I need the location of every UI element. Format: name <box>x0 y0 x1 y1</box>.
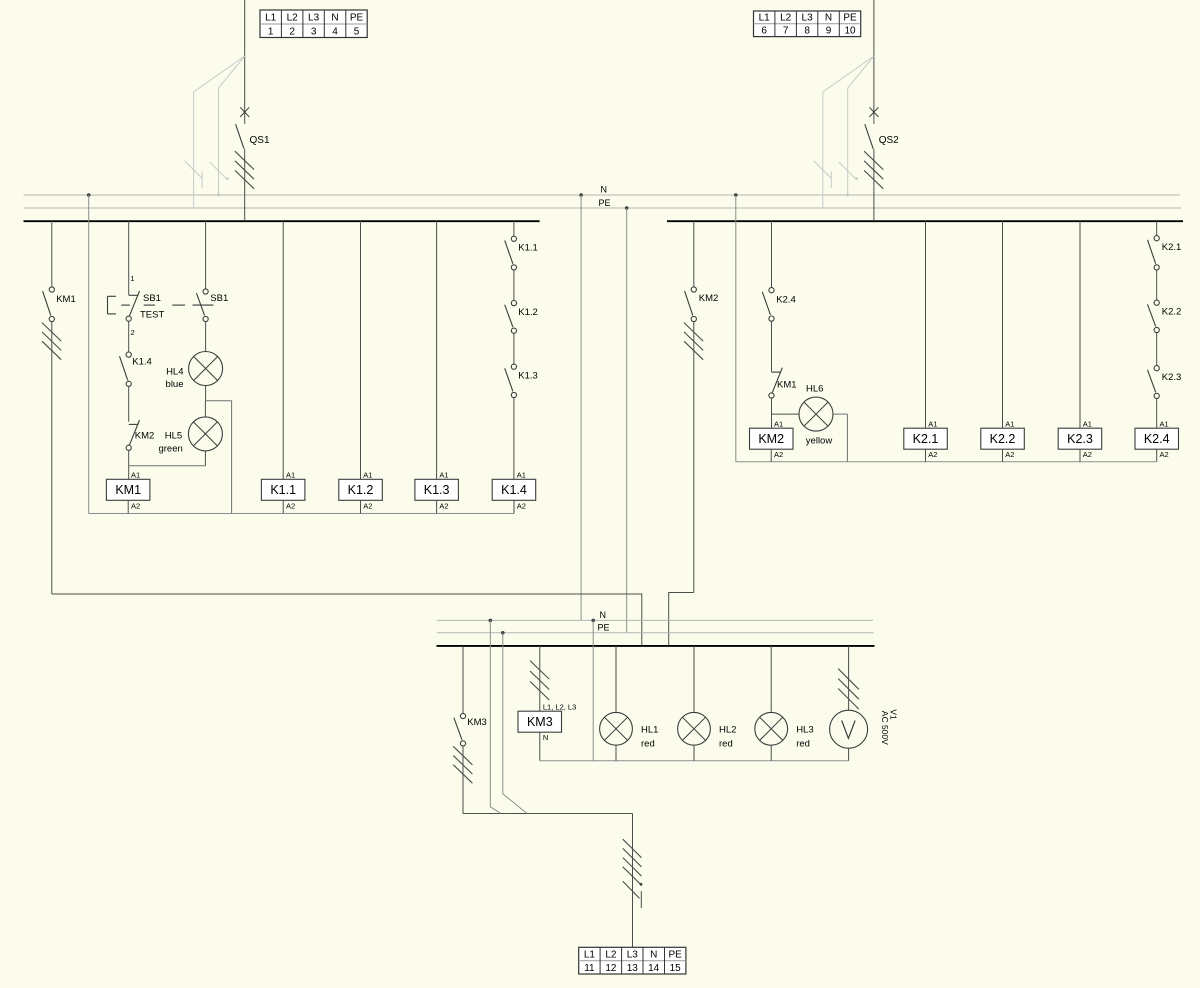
junction on PE rail <box>625 206 629 210</box>
coil K1.1 <box>261 479 305 500</box>
svg-text:A1: A1 <box>1160 420 1169 429</box>
wire <box>128 450 130 479</box>
contactor contact KM3 <box>454 713 466 746</box>
wire N drop to middle section <box>580 195 582 620</box>
wire HL1 drop from bus <box>615 646 617 713</box>
wire KM2 branch from bus <box>693 221 695 287</box>
relay contact K2.1 <box>1148 236 1160 270</box>
disconnect switch QS1 blade <box>236 124 244 149</box>
svg-text:8: 8 <box>804 25 810 36</box>
svg-text:K2.2: K2.2 <box>990 432 1016 446</box>
svg-text:PE: PE <box>350 13 364 24</box>
svg-text:L1: L1 <box>584 949 596 960</box>
wire HL3 drop from bus <box>770 646 772 713</box>
svg-text:K2.4: K2.4 <box>1144 432 1170 446</box>
lamp HL5 <box>188 417 222 451</box>
pushbutton SB1 NO <box>196 289 208 322</box>
relay contact K1.1 <box>505 236 517 270</box>
svg-text:N: N <box>601 185 608 195</box>
svg-text:A1: A1 <box>439 471 448 480</box>
svg-text:N: N <box>543 733 548 742</box>
coil K1.2 <box>339 479 383 500</box>
junction on N rail <box>579 193 583 197</box>
svg-text:KM1: KM1 <box>777 380 797 391</box>
svg-text:A2: A2 <box>517 501 526 510</box>
svg-text:A2: A2 <box>1083 450 1092 459</box>
svg-text:A2: A2 <box>286 501 295 510</box>
svg-text:K2.3: K2.3 <box>1162 372 1182 383</box>
svg-text:A2: A2 <box>1160 450 1169 459</box>
wire coil drop from bus <box>436 221 438 479</box>
relay contact K1.4 <box>120 352 132 386</box>
svg-text:K2.1: K2.1 <box>1162 242 1182 253</box>
svg-text:A2: A2 <box>439 501 448 510</box>
svg-text:A2: A2 <box>363 501 372 510</box>
svg-text:K1.3: K1.3 <box>518 371 538 382</box>
wire HL5 bottom link <box>129 465 206 467</box>
wire PE to terminals <box>503 633 527 814</box>
svg-text:L3: L3 <box>308 13 320 24</box>
svg-text:K2.2: K2.2 <box>1162 307 1182 318</box>
svg-text:N: N <box>825 12 832 23</box>
wire <box>873 149 875 221</box>
svg-text:A1: A1 <box>774 420 783 429</box>
wire <box>693 322 695 593</box>
terminal block X2 (6-10) <box>754 11 861 37</box>
wire KM3 branch from bus <box>462 646 464 714</box>
wire node to HL6 <box>772 413 799 415</box>
svg-text:A1: A1 <box>517 471 526 480</box>
wire to bottom terminals <box>463 813 633 815</box>
svg-text:2: 2 <box>289 26 295 37</box>
junction on N rail <box>87 193 91 197</box>
svg-text:K1.1: K1.1 <box>270 483 296 497</box>
wire coil drop from bus <box>1002 221 1004 428</box>
svg-text:A1: A1 <box>928 420 937 429</box>
wire <box>244 149 246 221</box>
wire HL2 bottom <box>693 745 695 761</box>
svg-text:red: red <box>796 738 810 749</box>
lamp HL1 <box>600 712 633 745</box>
svg-text:K2.3: K2.3 <box>1067 432 1093 446</box>
coil K1.4 <box>492 479 536 500</box>
svg-text:PE: PE <box>843 12 857 23</box>
wire <box>1156 333 1158 366</box>
3-phase slashes on KM3 branch <box>453 746 472 783</box>
wire SB1 branch from bus <box>205 221 207 289</box>
svg-text:L2: L2 <box>780 12 792 23</box>
coil K2.1 <box>904 428 948 449</box>
svg-text:HL1: HL1 <box>641 725 658 736</box>
wire A2 stub <box>770 449 772 462</box>
svg-text:9: 9 <box>826 25 832 36</box>
wire <box>244 0 246 124</box>
svg-text:5: 5 <box>354 26 360 37</box>
svg-text:L1: L1 <box>759 12 771 23</box>
svg-text:L3: L3 <box>802 12 814 23</box>
wire cable bundle down <box>632 814 634 948</box>
wire N return drop <box>88 195 90 514</box>
wire HL6 return drop <box>846 414 848 462</box>
3-phase slashes on KM1 branch <box>42 323 61 360</box>
wire HL5 top <box>204 401 206 417</box>
svg-text:yellow: yellow <box>806 435 833 446</box>
wire A2 stub <box>1156 449 1158 462</box>
coil K2.4 <box>1135 428 1179 449</box>
wire <box>51 322 53 595</box>
relay contact K2.4 <box>762 288 774 322</box>
wire KM1 branch from bus <box>51 221 53 287</box>
svg-text:7: 7 <box>783 25 789 36</box>
svg-text:A2: A2 <box>1005 450 1014 459</box>
wire coil drop from bus <box>360 221 362 479</box>
svg-text:L1: L1 <box>265 13 277 24</box>
coil K2.3 <box>1058 428 1102 449</box>
wire N to terminals <box>490 620 501 813</box>
svg-text:blue: blue <box>166 379 184 390</box>
wire A2 stub <box>436 500 438 513</box>
wire A2 stub <box>127 500 129 513</box>
wire <box>1156 270 1158 300</box>
wire HL6 right <box>833 413 847 415</box>
ghost pole L2 of QS1 <box>184 56 244 208</box>
svg-text:A1: A1 <box>286 471 295 480</box>
voltmeter V1 <box>830 710 868 748</box>
svg-text:KM3: KM3 <box>527 715 553 729</box>
svg-text:KM3: KM3 <box>467 717 487 728</box>
wire HL5 bottom <box>204 451 206 466</box>
svg-text:HL3: HL3 <box>796 725 813 736</box>
svg-text:SB1: SB1 <box>210 293 228 304</box>
wire to bottom section bus <box>52 594 642 646</box>
svg-text:1: 1 <box>130 274 134 283</box>
left phase bus <box>24 220 540 222</box>
disconnect switch QS1 fuse X mark <box>240 107 249 117</box>
svg-text:A1: A1 <box>131 471 140 480</box>
svg-text:AC 500V: AC 500V <box>880 711 890 745</box>
wire HL2 drop from bus <box>693 646 695 713</box>
wire left coil return line <box>89 513 514 515</box>
svg-text:6: 6 <box>761 25 767 36</box>
relay contact K1.3 <box>505 364 517 398</box>
svg-text:12: 12 <box>605 963 617 974</box>
wire <box>771 321 773 372</box>
svg-text:L2: L2 <box>605 949 617 960</box>
3-phase slashes on KM2 branch <box>684 323 703 360</box>
svg-text:4: 4 <box>332 26 338 37</box>
svg-text:3: 3 <box>311 26 317 37</box>
wire KM3 box bottom <box>539 732 541 761</box>
svg-text:HL2: HL2 <box>719 725 736 736</box>
cable bundle slashes <box>623 839 642 898</box>
wire N return drop right <box>735 195 737 462</box>
svg-text:10: 10 <box>844 25 856 36</box>
svg-text:PE: PE <box>599 198 611 208</box>
wire HL3 bottom <box>770 745 772 761</box>
svg-text:13: 13 <box>627 963 639 974</box>
svg-text:K2.4: K2.4 <box>776 295 796 306</box>
wire node to return <box>206 400 232 402</box>
wire KM3 coil drop from bus <box>539 646 541 711</box>
net PE middle rail <box>437 632 874 634</box>
disconnect switch QS2 blade <box>865 124 873 149</box>
lamp HL2 <box>678 712 711 745</box>
wire <box>873 0 875 124</box>
PE marker dot on bundle <box>640 883 643 886</box>
PE marker stub on bundle <box>640 891 642 908</box>
wire right coil return line <box>736 461 1157 463</box>
wire A2 stub <box>1079 449 1081 462</box>
contactor contact KM1 <box>43 287 55 322</box>
terminal block X3 (11-15) <box>579 947 686 974</box>
wire <box>513 270 515 300</box>
svg-text:PE: PE <box>598 623 610 633</box>
svg-text:A2: A2 <box>774 450 783 459</box>
svg-text:N: N <box>600 610 607 620</box>
svg-text:11: 11 <box>584 963 595 974</box>
svg-text:KM1: KM1 <box>115 483 141 497</box>
wire HL1 bottom <box>615 745 617 761</box>
wire A2 stub <box>282 500 284 513</box>
svg-text:KM1: KM1 <box>56 294 76 305</box>
svg-text:red: red <box>719 738 733 749</box>
svg-text:N: N <box>331 13 338 24</box>
ghost pole L3 of QS1 <box>210 56 245 196</box>
disconnect switch QS1 3-phase slashes <box>235 151 254 189</box>
net PE top rail <box>24 207 1182 209</box>
wire A2 stub <box>513 500 515 513</box>
contactor contact KM1 NC interlock <box>769 368 782 398</box>
svg-text:KM2: KM2 <box>135 431 155 442</box>
relay contact K2.3 <box>1148 366 1160 399</box>
svg-text:A2: A2 <box>928 450 937 459</box>
wire coil drop from bus <box>1079 221 1081 428</box>
svg-text:A1: A1 <box>1005 420 1014 429</box>
coil KM1 <box>106 479 149 500</box>
terminal block X1 (1-5) <box>260 10 367 38</box>
svg-text:K1.2: K1.2 <box>518 307 538 318</box>
svg-text:HL5: HL5 <box>165 430 182 441</box>
net N middle rail <box>437 619 873 621</box>
wire <box>513 398 515 480</box>
svg-text:K1.2: K1.2 <box>348 483 374 497</box>
svg-text:A1: A1 <box>363 471 372 480</box>
junction on PE middle rail <box>501 631 505 635</box>
wire N connect to return <box>592 620 594 760</box>
svg-text:14: 14 <box>648 963 660 974</box>
contactor contact KM2 <box>685 287 697 322</box>
pushbutton actuator bracket <box>108 296 117 314</box>
svg-text:SB1: SB1 <box>143 293 161 304</box>
svg-text:1: 1 <box>268 26 274 37</box>
svg-text:QS1: QS1 <box>250 135 270 146</box>
net N top rail <box>24 194 1181 196</box>
relay contact K1.2 <box>505 301 517 334</box>
wire lamp return line <box>540 760 849 762</box>
right phase bus <box>667 220 1183 222</box>
svg-text:K1.3: K1.3 <box>424 483 450 497</box>
wire coil drop from bus <box>282 221 284 479</box>
ghost pole L2 of QS2 <box>814 56 874 208</box>
wire K1 chain from bus <box>513 221 515 236</box>
junction on N middle rail <box>591 619 595 623</box>
svg-text:KM2: KM2 <box>758 432 784 446</box>
wire <box>513 334 515 365</box>
svg-text:A2: A2 <box>131 501 140 510</box>
svg-text:HL4: HL4 <box>166 367 183 378</box>
wire SB1 test branch from bus <box>128 221 130 295</box>
3-phase slashes on V1 drop <box>838 669 859 709</box>
lamp HL4 <box>189 352 223 386</box>
svg-text:HL6: HL6 <box>806 384 823 395</box>
wire V1 drop from bus <box>848 646 850 710</box>
svg-text:QS2: QS2 <box>879 135 899 146</box>
wire PE drop to middle section <box>626 208 628 633</box>
disconnect switch QS2 3-phase slashes <box>864 151 883 189</box>
coil K1.3 <box>415 479 459 500</box>
disconnect switch QS2 fuse X mark <box>869 107 878 117</box>
lamp HL3 <box>755 712 788 745</box>
3-phase slashes on KM3 coil drop <box>530 661 549 700</box>
bottom phase bus <box>437 645 875 647</box>
wire A2 stub <box>925 449 927 462</box>
wire <box>1156 399 1158 429</box>
svg-text:L1, L2, L3: L1, L2, L3 <box>543 703 576 712</box>
wire HL4 bottom <box>205 386 207 401</box>
wire HL4 return drop <box>231 401 233 514</box>
lamp HL6 <box>799 397 833 431</box>
svg-text:A1: A1 <box>1083 420 1092 429</box>
wire <box>128 321 130 352</box>
svg-text:K1.4: K1.4 <box>501 483 527 497</box>
wire <box>205 322 207 352</box>
contactor contact KM2 NC <box>126 420 139 450</box>
svg-text:PE: PE <box>669 949 683 960</box>
wire A2 stub <box>360 500 362 513</box>
wire V1 bottom <box>848 748 850 761</box>
wire <box>771 398 773 428</box>
wire K2.4 branch from bus <box>771 221 773 288</box>
svg-text:2: 2 <box>131 328 135 337</box>
svg-text:KM2: KM2 <box>699 293 719 304</box>
svg-text:15: 15 <box>670 963 682 974</box>
wire <box>462 746 464 814</box>
relay contact K2.2 <box>1148 300 1160 333</box>
contactor KM3 box <box>518 711 562 732</box>
svg-text:N: N <box>650 949 657 960</box>
svg-text:K1.4: K1.4 <box>132 357 152 368</box>
svg-text:TEST: TEST <box>140 310 164 321</box>
coil K2.2 <box>981 428 1025 449</box>
svg-text:K2.1: K2.1 <box>913 432 939 446</box>
junction on N middle rail <box>489 619 493 623</box>
wire coil drop from bus <box>925 221 927 428</box>
svg-text:L2: L2 <box>287 13 299 24</box>
wire K2 chain from bus <box>1156 221 1158 236</box>
svg-text:green: green <box>158 444 182 455</box>
svg-text:red: red <box>641 738 655 749</box>
actuator dashed link <box>121 304 213 306</box>
svg-text:L3: L3 <box>627 949 639 960</box>
wire <box>128 386 130 421</box>
pushbutton SB1 NC (TEST) <box>126 291 139 321</box>
wire to bottom section bus <box>669 593 694 646</box>
svg-text:K1.1: K1.1 <box>518 243 538 254</box>
ghost pole L3 of QS2 <box>839 56 874 196</box>
junction on N rail <box>734 193 738 197</box>
wire A2 stub <box>1002 449 1004 462</box>
coil KM2 <box>750 428 794 449</box>
